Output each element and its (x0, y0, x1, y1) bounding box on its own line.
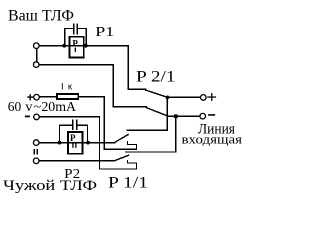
junction node P1 left (62, 44, 66, 48)
pin mark II of relay P2 left (72, 143, 73, 148)
wire battery minus down (99, 117, 101, 169)
capacitor C2 left lead (60, 124, 73, 126)
relay coil P1 box (70, 37, 84, 58)
pin mark II of relay P2 right (75, 143, 76, 148)
svg-text:входящая: входящая (182, 131, 243, 146)
resistor 1k box (57, 94, 78, 99)
junction node P2 right (86, 141, 90, 145)
wire hook b lower run (100, 168, 137, 170)
wire hook b upper return (128, 162, 137, 164)
svg-text:v: v (25, 100, 32, 115)
wire relay P2 rail (39, 142, 114, 144)
contact P1/1 lower blade (115, 155, 129, 160)
terminal B1 (33, 140, 39, 146)
svg-text:P1: P1 (95, 25, 114, 40)
svg-text:Р: Р (70, 133, 76, 143)
capacitor C1 right plate (76, 24, 78, 34)
svg-text:P 2/1: P 2/1 (136, 68, 176, 85)
terminal line minus (200, 113, 206, 119)
wire battery plus to resistor (40, 96, 58, 98)
terminal A2 (33, 62, 39, 68)
wire hook b right riser (135, 163, 137, 169)
junction node D1 (166, 96, 170, 100)
phone link bar bottom pair left (33, 150, 35, 154)
relay coil P2 box (68, 132, 83, 154)
terminal B2 (33, 158, 39, 164)
svg-text:Р: Р (72, 39, 78, 49)
wire node D1 down (166, 97, 168, 130)
svg-text:60: 60 (8, 100, 21, 115)
terminal battery plus (34, 94, 40, 100)
junction node P2 left (58, 141, 62, 145)
phone link bar bottom pair right (36, 150, 38, 154)
wire from terminal A2 (39, 64, 113, 66)
wire resistor feed down (103, 97, 105, 149)
junction node P1 right (84, 44, 88, 48)
wire fixed lead of contact P2/1 (128, 88, 146, 90)
wire vertical drop (112, 65, 114, 107)
capacitor C1 left lead (65, 28, 74, 30)
capacitor C1 right lead (78, 28, 87, 30)
wire to fixed contact of P1/1 lower (126, 151, 176, 153)
capacitor C2 right leg (87, 125, 89, 142)
wire vertical drop to contact P2/1 (127, 46, 129, 89)
wire resistor to corner (78, 96, 104, 98)
wire node D2 down (175, 116, 177, 152)
wire from terminal B2 (39, 160, 114, 162)
wire node D2 to terminal minus (168, 115, 200, 117)
terminal line plus (201, 95, 207, 101)
svg-text:Ваш ТЛФ: Ваш ТЛФ (8, 8, 74, 25)
capacitor C1 right leg (85, 29, 87, 46)
terminal A1 (34, 43, 40, 49)
label minus line (208, 114, 215, 116)
capacitor C2 left leg (59, 125, 61, 142)
svg-text:Iк: Iк (61, 82, 73, 93)
svg-text:~20mA: ~20mA (34, 100, 77, 115)
label plus battery (27, 94, 33, 100)
wire from terminal A1 to relay P1 node (39, 45, 64, 47)
svg-text:P 1/1: P 1/1 (108, 175, 148, 192)
fixed contact tick P1/1 lower (127, 160, 129, 163)
label minus battery (25, 116, 30, 118)
pin mark I of relay P1 (75, 48, 76, 53)
junction node D2 (174, 114, 178, 118)
svg-text:Чужой ТЛФ: Чужой ТЛФ (3, 178, 97, 194)
phone link bar top pair (36, 49, 38, 61)
terminal battery minus (34, 114, 40, 120)
wire through relay P1 to corner (64, 45, 128, 47)
capacitor C1 left leg (64, 29, 66, 46)
wire hook upper return (127, 143, 136, 145)
fixed contact tick P1/1 upper (126, 141, 128, 144)
capacitor C2 left plate (72, 120, 74, 129)
wire hook lower run (104, 148, 136, 150)
wire fixed lead of contact P2/1 second (113, 106, 146, 108)
contact P2/1 blade (146, 90, 168, 97)
contact P2/1 second blade (146, 108, 168, 117)
wire node D1 to terminal + (167, 96, 200, 98)
wire hook right riser (135, 144, 137, 149)
capacitor C2 right lead (77, 124, 87, 126)
wire battery minus (40, 116, 100, 118)
label plus line (207, 93, 216, 101)
capacitor C1 left plate (73, 24, 75, 34)
contact P1/1 upper blade (115, 135, 128, 143)
capacitor C2 right plate (76, 120, 78, 129)
wire to fixed contact of P1/1 upper (127, 129, 167, 131)
